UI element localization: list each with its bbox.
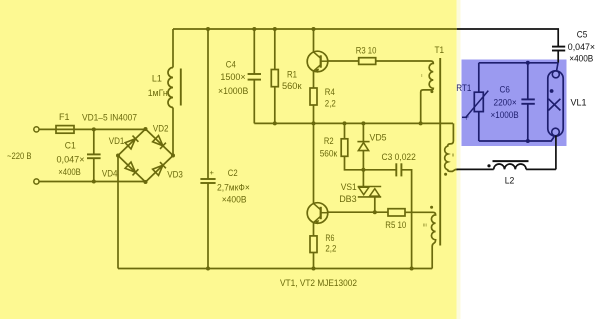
label VD1 — [109, 136, 125, 146]
lamp VL1 bottom electrode — [552, 128, 560, 136]
label R2 — [324, 136, 334, 146]
label C1 value 2 — [58, 167, 81, 177]
wire C6 bottom segment — [527, 104, 529, 141]
svg-text:VD1–5 IN4007: VD1–5 IN4007 — [82, 112, 137, 122]
label VD3 — [167, 170, 183, 180]
node R6 bottom rail — [312, 267, 316, 271]
wire node A down to diac — [362, 170, 364, 187]
wire bridge left corner to bottom rail — [117, 156, 119, 269]
resistor R2 — [341, 139, 348, 157]
diode VD1 — [125, 136, 138, 149]
wire L2 to winding II (white part) — [457, 168, 494, 170]
wire R4 bottom — [313, 105, 315, 123]
wire R1 top — [274, 29, 276, 70]
label C5 value 2 — [569, 53, 593, 63]
svg-text:×400В: ×400В — [569, 53, 593, 63]
label DB3 — [339, 194, 357, 204]
svg-text:III: III — [423, 223, 427, 228]
svg-text:~220 В: ~220 В — [7, 151, 32, 161]
wire bridge right corner up to L1 — [172, 108, 174, 156]
svg-text:VD3: VD3 — [167, 170, 183, 180]
node C2 bottom rail — [206, 267, 210, 271]
wire starter box top — [479, 62, 558, 64]
wire bridge edge top-right — [146, 129, 174, 156]
diode VD2 — [153, 136, 166, 149]
wire L1 top to rail — [172, 29, 174, 68]
wire VT1-VT2 link — [313, 123, 315, 203]
phase dot winding I — [430, 90, 433, 93]
input terminal top (~220 V line) — [34, 127, 39, 132]
wire C4 top — [253, 29, 255, 74]
label C6 value 2 — [491, 110, 519, 120]
label C3 — [382, 152, 416, 162]
svg-text:×400В: ×400В — [222, 194, 247, 204]
transformer T1 winding II — [445, 123, 458, 171]
node bridge bottom corner — [144, 180, 148, 184]
svg-text:VL1: VL1 — [571, 98, 587, 108]
diode VD3 — [153, 162, 166, 175]
label R4 value — [325, 98, 336, 108]
svg-text:C2: C2 — [228, 168, 238, 178]
node mid rail / VT1-VT2 — [312, 121, 316, 125]
wire bridge edge bottom-right — [146, 156, 174, 183]
label VD5 — [370, 132, 387, 142]
wire bottom rail — [118, 268, 432, 270]
node diac / VT2 base — [373, 210, 377, 214]
label R1 — [287, 69, 297, 79]
transformer T1 winding I — [376, 61, 434, 123]
label T1 — [435, 45, 445, 55]
label VD4 — [102, 168, 118, 178]
node bridge right corner — [171, 154, 175, 158]
node mid rail / winding I — [419, 121, 423, 125]
label VT1 VT2 types — [280, 278, 357, 288]
wire lamp to L2 — [526, 168, 556, 170]
label VL1 — [571, 98, 587, 108]
label R5 — [385, 220, 406, 230]
svg-text:560к: 560к — [320, 148, 338, 158]
svg-text:I: I — [421, 73, 422, 78]
capacitor C2 plus sign — [210, 168, 215, 177]
svg-text:×1000В: ×1000В — [218, 86, 248, 96]
svg-text:R3 10: R3 10 — [356, 46, 377, 56]
label F1 — [59, 112, 70, 122]
transistor VT2 — [307, 203, 328, 225]
capacitor C5 — [552, 47, 565, 51]
wire C1 top — [93, 129, 95, 154]
wire starter box bottom — [479, 137, 554, 141]
svg-text:2,7мкФ×: 2,7мкФ× — [217, 182, 250, 192]
wire R2 top — [344, 123, 346, 138]
label C4 — [226, 60, 236, 70]
node top rail / C4 — [252, 27, 256, 31]
inductor L2 — [494, 164, 526, 169]
core of L2 — [493, 160, 529, 162]
wire VD5 top — [362, 123, 364, 141]
svg-text:2,2: 2,2 — [325, 98, 336, 108]
resistor R5 — [388, 209, 405, 216]
svg-text:R4: R4 — [325, 87, 335, 97]
svg-text:T1: T1 — [435, 45, 445, 55]
label VD1-5 IN4007 — [82, 112, 137, 122]
label RT1 — [456, 83, 471, 93]
svg-text:C6: C6 — [500, 84, 510, 94]
label RT1 t-degree — [466, 116, 470, 122]
node top rail / C2 — [206, 27, 210, 31]
wire bridge edge bottom-left — [118, 156, 146, 183]
label C2 value 2 — [222, 194, 247, 204]
wire top rail (yellow part) — [173, 28, 457, 30]
node C6 bottom — [526, 139, 530, 143]
wire RT1 bottom — [478, 112, 480, 141]
label C4 value 1 — [220, 72, 245, 82]
wire C5 to lamp top — [557, 51, 559, 72]
capacitor C6 — [521, 99, 534, 103]
node mid rail / R2 — [343, 121, 347, 125]
svg-text:VD2: VD2 — [153, 123, 169, 133]
svg-text:0,047×: 0,047× — [568, 42, 595, 52]
wire VT1 base to R3 — [328, 60, 359, 62]
wire top rail (white part) and corner to C5 — [457, 29, 558, 47]
phase dot winding III — [430, 206, 433, 209]
label R3 — [356, 46, 377, 56]
input terminal bottom (~220 V neutral) — [34, 179, 39, 184]
capacitor C3 — [396, 163, 401, 176]
label winding III — [423, 223, 427, 228]
wire C3 to down-drop — [401, 170, 411, 269]
capacitor C4 — [248, 74, 261, 80]
lamp VL1 top electrode — [552, 71, 559, 78]
wire top input to bridge top corner — [39, 128, 145, 130]
label VS1 — [341, 182, 357, 192]
resistor R4 — [310, 88, 317, 105]
label winding I — [421, 73, 422, 78]
label L1 — [152, 74, 162, 84]
label C6 — [500, 84, 510, 94]
wire lamp bottom down — [555, 136, 557, 170]
node mid rail / VD5 — [361, 121, 365, 125]
wire diac bottom — [374, 197, 376, 212]
label R1 value — [282, 81, 302, 91]
lamp VL1 cross — [548, 99, 560, 111]
node mid rail / R1 — [273, 121, 277, 125]
wire bridge edge top-left — [118, 129, 146, 156]
label C2 value 1 — [217, 182, 250, 192]
label C5 value 1 — [568, 42, 595, 52]
svg-text:t°: t° — [466, 116, 470, 122]
core of L1 — [180, 69, 182, 106]
label L2 — [505, 176, 515, 186]
wire C4 bottom — [253, 80, 255, 124]
label C5 — [577, 30, 588, 40]
label ~220 V — [7, 151, 32, 161]
label R6 value — [325, 244, 336, 254]
wire C1 bottom — [93, 158, 95, 181]
wire C6 top segment — [527, 63, 529, 100]
lamp VL1 envelope — [548, 71, 563, 136]
svg-text:VT1, VT2 MJE13002: VT1, VT2 MJE13002 — [280, 278, 357, 288]
svg-text:×1000В: ×1000В — [491, 110, 519, 120]
svg-text:DB3: DB3 — [339, 194, 357, 204]
svg-text:F1: F1 — [59, 112, 70, 122]
wire R6 bottom — [313, 253, 315, 269]
label C4 value 2 — [218, 86, 248, 96]
resistor R3 — [359, 58, 376, 65]
wire VT1 collector — [313, 29, 315, 52]
node A junction — [361, 168, 365, 172]
svg-text:L2: L2 — [505, 176, 515, 186]
svg-text:2200×: 2200× — [494, 97, 517, 107]
label C2 — [228, 168, 238, 178]
transistor VT1 — [307, 51, 328, 73]
lamp VL1 dot — [550, 89, 554, 93]
label R4 — [325, 87, 335, 97]
svg-text:L1: L1 — [152, 74, 162, 84]
svg-text:2,2: 2,2 — [325, 244, 336, 254]
label winding II — [452, 153, 455, 158]
svg-text:1мГн: 1мГн — [148, 88, 168, 98]
svg-text:560к: 560к — [282, 81, 302, 91]
node top rail / R1 — [273, 27, 277, 31]
wire mid rail — [254, 122, 453, 124]
resistor R1 — [271, 70, 278, 87]
resistor R6 — [310, 236, 317, 253]
svg-text:R2: R2 — [324, 136, 334, 146]
node junction C1 bottom — [92, 180, 96, 184]
node top rail / VT1 collector — [312, 27, 316, 31]
node bridge left corner — [116, 154, 120, 158]
wire node A to C3 — [363, 169, 396, 171]
core of T1 — [439, 58, 441, 246]
svg-text:R6: R6 — [325, 233, 334, 243]
svg-text:VD1: VD1 — [109, 136, 125, 146]
svg-text:VD4: VD4 — [102, 168, 118, 178]
wire RT1 top — [478, 63, 480, 92]
wire VT2 base — [328, 211, 388, 213]
label VD2 — [153, 123, 169, 133]
label C6 value 1 — [494, 97, 517, 107]
wire VT1 emitter to R4 — [313, 71, 315, 88]
label R6 — [325, 233, 334, 243]
node C6 top — [526, 61, 530, 65]
label L1 value — [148, 88, 168, 98]
wire bottom input to bridge bottom corner — [39, 181, 145, 183]
wire VT2 emitter to R6 — [313, 223, 315, 236]
svg-text:C1: C1 — [65, 140, 76, 150]
svg-text:II: II — [452, 153, 455, 158]
wire C2 top — [207, 29, 209, 179]
inductor L1 — [168, 68, 173, 108]
svg-text:R1: R1 — [287, 69, 297, 79]
svg-text:VD5: VD5 — [370, 132, 387, 142]
label C1 value 1 — [57, 154, 85, 164]
thermistor RT1 — [462, 91, 488, 118]
diac VS1 — [358, 187, 381, 197]
svg-text:VS1: VS1 — [341, 182, 357, 192]
svg-text:RT1: RT1 — [456, 83, 471, 93]
label R2 value — [320, 148, 338, 158]
node junction C1 top — [92, 127, 96, 131]
capacitor C2 — [200, 179, 215, 183]
capacitor C1 — [87, 154, 101, 158]
svg-text:+: + — [210, 168, 215, 177]
svg-text:1500×: 1500× — [220, 72, 245, 82]
wire R2 bottom to node A — [345, 156, 364, 170]
svg-text:0,047×: 0,047× — [57, 154, 85, 164]
wire R1 bottom — [274, 87, 276, 124]
phase dot winding II — [444, 173, 447, 176]
fuse F1 — [56, 126, 74, 134]
svg-text:×400В: ×400В — [58, 167, 81, 177]
svg-text:C4: C4 — [226, 60, 236, 70]
wire VD5 bottom — [362, 151, 364, 170]
node C3 bottom rail — [410, 267, 414, 271]
node bridge top corner — [144, 127, 148, 131]
svg-text:R5 10: R5 10 — [385, 220, 406, 230]
transformer T1 winding III — [405, 212, 436, 268]
diode VD5 — [357, 142, 369, 151]
wire C2 bottom — [207, 183, 209, 269]
diode VD4 — [125, 162, 138, 175]
svg-text:C3 0,022: C3 0,022 — [382, 152, 416, 162]
label C1 — [65, 140, 76, 150]
svg-text:C5: C5 — [577, 30, 588, 40]
phase dot L2 — [487, 164, 490, 167]
